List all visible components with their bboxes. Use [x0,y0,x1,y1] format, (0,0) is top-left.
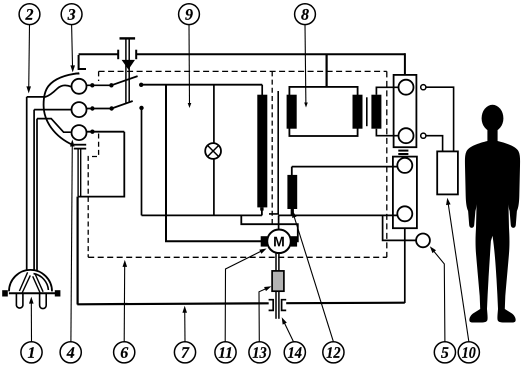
heater box 12 left edge [291,167,293,216]
wire: top supply rail left segment [79,53,119,55]
callout circle 5 [434,342,455,363]
switch row 2 blade [112,101,133,109]
appliance enclosure dashed box top edge [99,70,387,72]
strip contact c4 [397,206,412,221]
appliance enclosure dashed box bottom edge [88,256,387,258]
junction dot row2 c [139,106,143,110]
junction dot row2 a [90,106,94,110]
push-button shaft (mechanical link) [126,40,129,103]
heater 8 electrode bar left [287,95,297,129]
callout circle 7 [174,342,195,363]
shaft seal bracket left [269,300,274,311]
leader line for callout 5 [428,245,445,342]
mating gap line [366,97,368,126]
leader line for callout 1 [29,297,34,342]
plug pin left [16,293,23,308]
heater 8 electrode bar right [353,95,363,129]
callout circle 9 [179,4,200,25]
leader line for callout 12 [290,210,333,342]
callout circle 2 [19,4,40,25]
plug side square left [2,290,8,296]
appliance enclosure dashed box right edge [386,71,388,257]
plug side square right [55,290,61,296]
leader line for callout 8 [304,25,308,108]
svg-text:4: 4 [66,345,75,362]
wire: rail drop to terminal 1 of inlet [79,55,86,69]
heater box 8 outline [289,87,357,136]
wire: terminal 1 to indicator unit [426,87,454,151]
leader line for callout 10 [445,197,469,341]
motor left brush [261,236,267,246]
svg-text:1: 1 [27,345,35,362]
leader line for callout 2 [26,25,31,94]
earth loop wire right and bottom [78,132,124,197]
wire: row 2 drop to node A [141,108,143,215]
junction dot row1 c [139,83,143,87]
wire: top supply rail right segment [136,53,405,55]
appliance inlet connector shell arc [44,73,79,145]
connector strip upper box [394,75,417,147]
shaft seal bracket right [282,300,287,311]
wire: cable conductor 3 vertical [36,119,38,272]
electrode bar right of main unit [257,95,267,208]
appliance enclosure dashed box left edge upper stub [98,71,100,81]
lamp HL1 [205,143,221,159]
sensor line along heater [269,91,278,214]
switch row 1 blade [111,76,137,85]
junction dot row3 [90,130,94,134]
heater 12 electrode stub [291,209,294,215]
leader line for callout 13 [259,284,272,342]
output terminal small circle 1 [421,85,426,90]
callout circle 8 [295,4,316,25]
push-button contact bar right [135,50,137,60]
callout circle 6 [114,342,135,363]
connector strip lower box [393,157,417,229]
callout circle 4 [60,342,81,363]
motor top wire [278,215,280,229]
plug baseline [9,292,57,294]
push-button actuator triangle [122,60,135,70]
appliance inlet shell top tick [75,73,79,75]
wire: terminal 3 to earth loop [87,131,125,133]
leader line for callout 14 [280,316,294,341]
motor M1 [267,230,291,254]
plug sheath inner arc [34,274,49,290]
mating electrode bar outer [371,95,381,129]
svg-text:12: 12 [326,345,341,362]
switch row 2 wire from terminal [87,108,112,110]
svg-text:2: 2 [24,7,33,24]
coupling bars between connector halves [398,151,408,154]
wire: phase lead from cable to terminal 1 [27,85,72,97]
push-button switch S1 cap [120,37,136,39]
wire: neutral lead to terminal 2 [34,109,71,111]
svg-text:10: 10 [462,345,476,362]
motor M1 feed loop from node A [241,215,297,241]
bottom earth rail left part [77,303,268,304]
wire: outer bar to contact c2 [376,129,398,136]
indicator unit 10 [437,151,458,194]
svg-text:11: 11 [218,345,233,362]
heater box 12 top edge [292,166,398,168]
earth contact bracket bars [74,145,86,149]
leader line for callout 4 [70,140,75,342]
wire: electrode stub to node A [261,210,263,215]
junction dot row2 b [109,106,113,110]
callout circle 1 [21,342,42,363]
mains plug body dome [9,270,52,292]
callout circle 11 [215,342,236,363]
push-button contact bar left [117,50,119,60]
main unit right edge [261,85,263,97]
bottom earth rail right part [286,302,405,305]
svg-text:9: 9 [185,7,193,24]
callout circle 10 [458,342,479,363]
wire: rail drop to connector strip [404,53,406,75]
leader line for callout 9 [188,25,192,108]
motor shaft upper [276,252,279,271]
plug pin right [40,293,47,308]
motor shaft lower [276,291,279,319]
strip contact c2 [399,128,414,143]
svg-text:13: 13 [252,345,267,362]
leader line for callout 11 [225,246,267,341]
inlet terminal circle 3 [72,125,87,140]
wire: lead to terminal 3 [37,119,71,133]
wire: terminal 2 to indicator unit [426,136,443,152]
human body silhouette [465,105,520,323]
main unit top wire / rectangle top edge [141,84,262,86]
leader line for callout 3 [70,25,75,73]
coupling block 13 [272,271,284,291]
callout circle 12 [323,342,344,363]
wire: cable conductor 2 vertical [33,110,35,271]
svg-text:8: 8 [301,7,309,24]
plug internal wire left pair [19,272,30,293]
svg-text:5: 5 [441,345,449,362]
junction dot row1 a [90,83,94,87]
switch row 1 wire from terminal [87,84,112,86]
svg-text:14: 14 [288,345,303,362]
strip contact c1 [399,80,414,95]
node A bottom wire [142,214,262,216]
svg-text:M: M [273,233,285,249]
leader line for callout 6 [123,260,128,342]
inlet terminal circle 2 [72,102,87,117]
inlet terminal circle 1 [72,79,87,94]
motor right brush [291,236,297,246]
earth pin double wire [78,149,81,197]
strip contact c3 [397,158,412,173]
electrode bar bottom stub [260,207,263,210]
internal dashed partition [271,71,273,224]
node C wire under heater 2 [278,214,397,216]
callout circle 13 [249,342,270,363]
callout circle 14 [284,342,305,363]
svg-text:3: 3 [67,7,76,24]
appliance enclosure dashed box left edge lower part [88,134,98,258]
lamp branch wire [213,85,215,216]
wire: rail drop to heater 8 [326,54,328,87]
leader line for callout 7 [182,306,187,342]
svg-text:6: 6 [120,345,128,362]
output terminal small circle 2 [421,133,426,138]
wire: heater 12 tap to loose contact 5 [383,215,417,240]
heater 12 electrode bar [287,175,297,209]
main unit left edge continuing to motor feed [166,85,262,242]
wire: cable conductor 1 vertical [26,97,28,271]
loose contact circle 5 [416,234,430,248]
wire: strip earth drop [404,228,406,303]
junction dot row1 b [109,83,113,87]
callout circle 3 [61,4,82,25]
plug internal wire right pair [33,274,43,294]
svg-text:7: 7 [181,345,190,362]
wire: outer bar to contact c1 [376,87,398,94]
